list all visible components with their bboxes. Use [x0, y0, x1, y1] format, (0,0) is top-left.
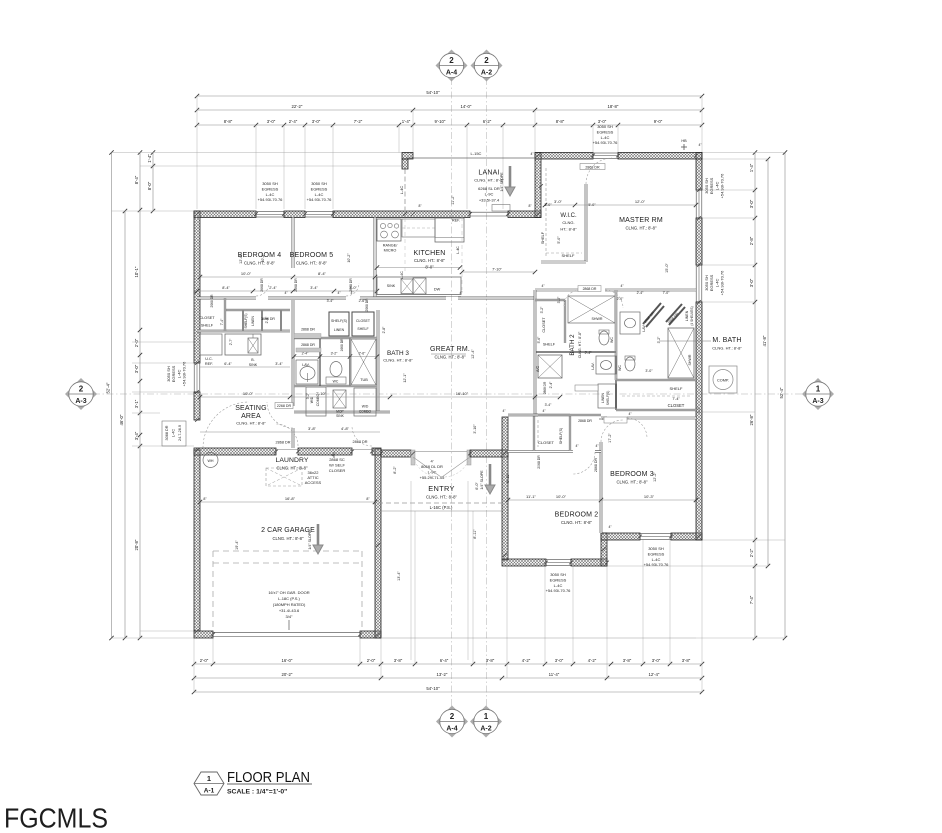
- svg-text:3'-10": 3'-10": [473, 424, 477, 434]
- garage overhead door header: [213, 631, 360, 633]
- slope arrow garage: [313, 524, 323, 554]
- svg-text:(180MPH RATED): (180MPH RATED): [273, 602, 306, 607]
- svg-text:SCALE : 1/4"=1'-0": SCALE : 1/4"=1'-0": [227, 789, 287, 796]
- svg-text:LANAI: LANAI: [478, 170, 499, 177]
- svg-text:3'-4": 3'-4": [310, 286, 318, 290]
- laundry door gap header: [276, 449, 298, 451]
- slope arrow entry porch: [485, 464, 495, 494]
- west wall segment: [194, 392, 200, 420]
- svg-text:10'-2": 10'-2": [347, 253, 351, 263]
- svg-text:2868 DR: 2868 DR: [301, 343, 315, 347]
- door label master 2868: [580, 164, 605, 170]
- right dimension line 41'-8: [767, 159, 769, 566]
- svg-text:3050 SH: 3050 SH: [550, 572, 566, 577]
- svg-text:L-4C: L-4C: [400, 271, 404, 279]
- svg-text:52'-4": 52'-4": [106, 382, 111, 393]
- svg-text:3'-0": 3'-0": [749, 199, 754, 208]
- svg-text:GREAT RM.: GREAT RM.: [430, 346, 470, 353]
- bottom dimension row segments: [194, 663, 702, 665]
- master closet walls: [616, 379, 696, 381]
- svg-text:2868 DR: 2868 DR: [543, 381, 547, 394]
- svg-text:SINK: SINK: [249, 363, 258, 367]
- svg-text:3'-0": 3'-0": [749, 278, 754, 287]
- svg-text:BEDROOM 3: BEDROOM 3: [610, 471, 654, 478]
- north wall of bedrooms and kitchen: [194, 211, 256, 218]
- closet band bottom wall: [197, 330, 290, 332]
- svg-text:2: 2: [79, 384, 84, 393]
- svg-text:2268 DR: 2268 DR: [277, 404, 292, 408]
- svg-text:2'-0": 2'-0": [134, 338, 139, 347]
- svg-text:4'-2": 4'-2": [522, 658, 531, 663]
- svg-text:54'-10": 54'-10": [426, 90, 440, 95]
- west exterior wall: [194, 211, 200, 363]
- garage south wall west jamb: [194, 631, 213, 638]
- svg-text:LINEN: LINEN: [251, 316, 255, 326]
- svg-text:BEDROOM 4: BEDROOM 4: [238, 252, 282, 259]
- svg-text:CLNG. HT.: 8'-8": CLNG. HT.: 8'-8": [561, 520, 592, 525]
- garage self-close door header: [352, 449, 372, 451]
- svg-text:CLNG. HT.: 8'-8": CLNG. HT.: 8'-8": [277, 466, 308, 471]
- svg-text:3'-0": 3'-0": [645, 369, 653, 373]
- washer dryer combo 2: [354, 388, 376, 416]
- bath3 toilet: [330, 362, 342, 377]
- entry double door swing: [413, 457, 441, 477]
- jog wall between bedroom2 and bedroom3: [601, 533, 607, 566]
- svg-text:8'-8": 8'-8": [556, 119, 565, 124]
- kitchen soffit dashed: [404, 218, 406, 272]
- svg-text:CLOSET: CLOSET: [668, 403, 685, 408]
- svg-text:8'-0": 8'-0": [147, 181, 152, 190]
- svg-text:SINK: SINK: [336, 414, 344, 418]
- svg-text:20'-2": 20'-2": [282, 672, 293, 677]
- svg-text:5'-6": 5'-6": [537, 336, 541, 344]
- svg-text:3'-0": 3'-0": [544, 203, 552, 207]
- great rm dim 7'-10: [462, 271, 535, 273]
- svg-text:1'-4": 1'-4": [749, 163, 754, 172]
- svg-text:8'-2": 8'-2": [393, 466, 397, 474]
- north wall segment to lanai: [333, 211, 470, 218]
- left dimension line 46'-0: [124, 211, 126, 638]
- svg-text:SHELF(S): SHELF(S): [606, 391, 610, 406]
- svg-text:7'-4": 7'-4": [749, 595, 754, 604]
- interior dim garage line: [200, 501, 375, 503]
- svg-text:CLNG. HT.: 8'-8": CLNG. HT.: 8'-8": [435, 355, 466, 360]
- svg-text:2868 DR: 2868 DR: [594, 458, 598, 473]
- svg-text:LAUNDRY: LAUNDRY: [275, 457, 308, 464]
- svg-text:2868 DR: 2868 DR: [583, 287, 597, 291]
- svg-text:10'-3": 10'-3": [644, 494, 655, 499]
- svg-text:19'-4": 19'-4": [235, 540, 239, 550]
- AC compressor pad: [709, 366, 737, 393]
- svg-text:10'-0": 10'-0": [556, 494, 567, 499]
- interior dim master line: [545, 204, 696, 206]
- svg-text:7'-4": 7'-4": [220, 318, 224, 325]
- svg-text:8'-0": 8'-0": [425, 265, 434, 270]
- svg-text:WH: WH: [208, 459, 214, 463]
- svg-text:REF.: REF.: [452, 219, 460, 223]
- svg-text:8'-4": 8'-4": [134, 175, 139, 184]
- bedroom3 south wall east: [671, 533, 702, 540]
- svg-text:2'-8": 2'-8": [382, 326, 386, 334]
- svg-text:2068 DR: 2068 DR: [537, 455, 541, 469]
- svg-text:+54.93/-70.76: +54.93/-70.76: [307, 197, 333, 202]
- svg-text:3050 SH: 3050 SH: [262, 181, 278, 186]
- WIC shelf dashed: [545, 168, 547, 256]
- svg-text:W/D: W/D: [362, 405, 369, 409]
- right dimension line 52'-4: [784, 153, 786, 639]
- door swing arcs: [256, 283, 269, 296]
- east wall segment: [696, 218, 702, 265]
- laundry room attic access: [266, 468, 302, 486]
- svg-text:L-4C: L-4C: [266, 192, 275, 197]
- svg-text:W.I.C.: W.I.C.: [560, 213, 577, 219]
- svg-text:6'-2": 6'-2": [483, 119, 492, 124]
- porch dashed overhang line: [378, 502, 505, 504]
- svg-text:2'-6": 2'-6": [359, 299, 367, 303]
- svg-text:SHELF: SHELF: [562, 253, 575, 258]
- AC closet: [538, 355, 562, 378]
- hall door headers: [294, 334, 321, 339]
- svg-text:EGRESS: EGRESS: [550, 577, 567, 582]
- svg-text:EGRESS: EGRESS: [262, 186, 279, 191]
- garage/house wall with laundry: [194, 448, 276, 455]
- mbath toilet: [625, 357, 635, 371]
- bath2 shower: [568, 296, 615, 323]
- svg-text:2668 DR: 2668 DR: [260, 278, 264, 292]
- master north wall east: [618, 153, 702, 160]
- svg-text:2068 DR: 2068 DR: [210, 294, 214, 308]
- svg-text:L-18C (P.S.): L-18C (P.S.): [278, 596, 300, 601]
- svg-text:WC: WC: [333, 380, 339, 384]
- svg-text:L-4C: L-4C: [172, 429, 176, 437]
- svg-text:CLNG. HT.: 8'-8": CLNG. HT.: 8'-8": [383, 358, 413, 363]
- svg-text:L-4C: L-4C: [315, 192, 324, 197]
- svg-text:54'-10": 54'-10": [426, 686, 440, 691]
- bath3 dim line: [294, 356, 377, 358]
- kitchen counter band: [377, 277, 461, 295]
- svg-text:SHWR: SHWR: [688, 354, 692, 365]
- svg-text:BEDROOM 5: BEDROOM 5: [290, 252, 334, 259]
- section line A-4 vertical: [451, 78, 453, 709]
- door label 2268 seating: [275, 403, 293, 409]
- bath2 lav: [596, 356, 616, 374]
- entry front wall east of door: [470, 450, 508, 457]
- window east wall lower 3050SH: [696, 265, 702, 302]
- svg-text:1: 1: [816, 384, 821, 393]
- svg-text:1/4" SLOPE: 1/4" SLOPE: [308, 530, 312, 550]
- svg-text:3'-4": 3'-4": [275, 362, 283, 366]
- svg-text:A-1: A-1: [204, 788, 215, 795]
- garage door dashed track lines: [212, 551, 214, 630]
- svg-text:L-4C: L-4C: [554, 583, 563, 588]
- lanai screen north edge: [407, 157, 535, 159]
- bath3 south wall: [294, 411, 390, 413]
- svg-text:52'-4": 52'-4": [779, 387, 784, 398]
- svg-text:3'-8": 3'-8": [682, 658, 691, 663]
- top extension lines: [196, 96, 198, 209]
- svg-text:CLOSET: CLOSET: [199, 316, 215, 320]
- front door label box west: [162, 421, 186, 446]
- garage south wall east jamb: [360, 631, 381, 638]
- svg-text:B.: B.: [251, 358, 254, 362]
- bath3 lav: [296, 360, 318, 384]
- svg-text:16'x7' OH GAR. DOOR: 16'x7' OH GAR. DOOR: [268, 590, 309, 595]
- window bedroom3 3050SH: [640, 534, 671, 540]
- svg-text:+54.93/-70.76: +54.93/-70.76: [546, 588, 572, 593]
- svg-text:3'-4": 3'-4": [545, 403, 553, 407]
- garage east wall: [375, 449, 381, 638]
- wall corner tick marks: [195, 212, 199, 216]
- interior dim bedroom2/3 line: [508, 499, 696, 501]
- svg-text:16'-10": 16'-10": [456, 391, 469, 396]
- west wall below front door: [194, 450, 200, 631]
- left dimension line small top: [152, 153, 154, 212]
- svg-text:7'-0": 7'-0": [663, 291, 671, 295]
- svg-text:SHWR: SHWR: [592, 317, 603, 321]
- svg-text:MOP: MOP: [336, 410, 344, 414]
- svg-text:2: 2: [449, 56, 454, 65]
- svg-text:3'-2": 3'-2": [331, 352, 339, 356]
- svg-text:(4 SHELVES): (4 SHELVES): [690, 306, 694, 325]
- water heater WH: [203, 453, 218, 468]
- svg-text:SHELF: SHELF: [543, 343, 556, 347]
- svg-text:3'-0": 3'-0": [267, 119, 276, 124]
- front porch walkway edge: [381, 637, 696, 639]
- interior dim bedrooms: [200, 276, 375, 278]
- interior dim great room line: [200, 396, 560, 398]
- bedroom2 south wall: [502, 559, 546, 566]
- svg-text:HB: HB: [681, 139, 687, 143]
- svg-text:SINK: SINK: [387, 284, 396, 288]
- svg-text:3'-8": 3'-8": [394, 658, 403, 663]
- section line A-3 horizontal: [93, 393, 806, 395]
- svg-text:CLOSET: CLOSET: [542, 317, 546, 333]
- porch slab edge: [381, 510, 502, 512]
- window bedroom5 3050SH: [305, 212, 333, 218]
- svg-text:10'-2": 10'-2": [261, 253, 265, 263]
- svg-text:CLOSET: CLOSET: [538, 440, 555, 445]
- section marker 1/A-2 bottom: [470, 706, 502, 738]
- WIC east wall: [585, 184, 588, 262]
- svg-text:L-4C: L-4C: [399, 186, 404, 195]
- svg-text:CLNG.: CLNG.: [562, 220, 574, 225]
- svg-text:W/ SELF: W/ SELF: [329, 463, 346, 468]
- svg-text:1'-4": 1'-4": [402, 119, 411, 124]
- svg-text:LINEN: LINEN: [601, 392, 605, 403]
- svg-text:CLNG. HT.: 8'-8": CLNG. HT.: 8'-8": [626, 226, 657, 231]
- bath3 fixtures top wall: [294, 337, 377, 339]
- range and microwave: [377, 219, 401, 241]
- svg-text:2'-2": 2'-2": [749, 548, 754, 557]
- svg-text:L-9C: L-9C: [485, 192, 494, 197]
- svg-text:2'-4": 2'-4": [637, 291, 645, 295]
- window master 3050SH egress: [593, 153, 618, 159]
- svg-text:3'-0": 3'-0": [555, 658, 564, 663]
- svg-text:2668 DR: 2668 DR: [294, 278, 298, 292]
- svg-text:+33.5/-37.4: +33.5/-37.4: [479, 198, 500, 203]
- kitchen 8-0 dim line: [377, 267, 460, 269]
- svg-text:1/4" SLOPE: 1/4" SLOPE: [480, 470, 484, 490]
- svg-text:2868 DR: 2868 DR: [276, 441, 291, 445]
- svg-text:L-16C (P.S.): L-16C (P.S.): [430, 505, 453, 510]
- svg-text:COMP.: COMP.: [717, 379, 729, 383]
- north wall segment: [284, 211, 305, 218]
- svg-text:1'-4": 1'-4": [147, 154, 152, 163]
- svg-text:AREA: AREA: [241, 413, 261, 420]
- svg-text:12'-0": 12'-0": [635, 199, 646, 204]
- svg-text:2'-4": 2'-4": [265, 316, 269, 324]
- svg-text:8'-4": 8'-4": [318, 271, 327, 276]
- bedroom3 upper closet: [535, 299, 565, 301]
- svg-text:A-3: A-3: [75, 398, 86, 405]
- svg-text:8'-4": 8'-4": [222, 286, 230, 290]
- svg-text:COMBO: COMBO: [359, 410, 372, 414]
- svg-text:2'-0": 2'-0": [200, 658, 209, 663]
- svg-text:2868 DR: 2868 DR: [301, 328, 315, 332]
- svg-text:11'-2": 11'-2": [451, 195, 455, 205]
- svg-text:2868 DR: 2868 DR: [578, 419, 592, 423]
- svg-text:3'-4": 3'-4": [134, 431, 139, 440]
- svg-text:CLOSET: CLOSET: [356, 319, 371, 323]
- master closet shelf dashed: [622, 395, 692, 397]
- svg-text:WC: WC: [610, 337, 614, 343]
- svg-text:2 CAR GARAGE: 2 CAR GARAGE: [261, 527, 315, 534]
- svg-text:BATH 3: BATH 3: [387, 350, 409, 357]
- bedroom3 west wall: [600, 418, 603, 420]
- window east wall upper 3050SH: [696, 190, 702, 218]
- section marker 2/A-4 bottom: [436, 706, 468, 738]
- svg-text:12'-2": 12'-2": [653, 472, 657, 482]
- master suite north wall: [535, 153, 593, 160]
- right dimension line inner segments: [754, 153, 756, 639]
- north wall under lanai east: [508, 211, 541, 218]
- svg-text:3050 SH: 3050 SH: [597, 124, 613, 129]
- svg-text:12'-1": 12'-1": [403, 373, 407, 383]
- svg-text:WC: WC: [618, 365, 622, 371]
- svg-text:2'-4": 2'-4": [549, 381, 553, 389]
- lanai east wall: [535, 153, 541, 218]
- svg-text:8'-11": 8'-11": [506, 473, 510, 483]
- svg-text:13'-2": 13'-2": [437, 672, 448, 677]
- svg-text:2'-7": 2'-7": [229, 338, 233, 345]
- svg-text:MASTER RM: MASTER RM: [619, 217, 663, 224]
- room label m bath with leader: [660, 340, 711, 342]
- svg-text:2: 2: [450, 712, 455, 721]
- svg-text:1/4" SLOPE: 1/4" SLOPE: [500, 172, 504, 192]
- svg-text:RANGE/: RANGE/: [383, 244, 399, 248]
- closet band dim line: [197, 290, 377, 292]
- svg-text:SHELF: SHELF: [357, 327, 368, 331]
- kitchen sink basin: [401, 279, 413, 294]
- svg-text:SHELF(S): SHELF(S): [244, 313, 248, 328]
- svg-text:+54.93/-70.76: +54.93/-70.76: [182, 361, 187, 387]
- wet bar counter: [225, 334, 261, 355]
- master south wall / bath band top: [535, 289, 580, 292]
- svg-text:BEDROOM 2: BEDROOM 2: [555, 512, 599, 519]
- hallway north wall: [197, 297, 256, 300]
- WIC south wall: [541, 261, 586, 264]
- svg-text:7'-2": 7'-2": [354, 119, 363, 124]
- svg-text:3'-2": 3'-2": [557, 296, 561, 304]
- closet dividers: [224, 298, 226, 331]
- svg-text:22'-2": 22'-2": [292, 104, 303, 109]
- svg-text:41'-8": 41'-8": [762, 335, 767, 346]
- mbath lav: [620, 312, 640, 334]
- svg-text:CLNG. HT.: 8'-8": CLNG. HT.: 8'-8": [426, 495, 457, 500]
- svg-text:A-2: A-2: [480, 726, 491, 733]
- svg-text:3'-0": 3'-0": [697, 406, 701, 414]
- svg-text:2: 2: [484, 56, 489, 65]
- svg-text:3'-0": 3'-0": [312, 119, 321, 124]
- bottom dimension row overall 54'-10: [194, 691, 702, 693]
- kitchen upper counter dashed: [402, 219, 435, 237]
- svg-text:14'-0": 14'-0": [461, 104, 472, 109]
- svg-text:SHELF(S): SHELF(S): [559, 428, 563, 444]
- svg-text:3050 SH: 3050 SH: [311, 181, 327, 186]
- svg-text:3'-8": 3'-8": [308, 426, 317, 431]
- svg-text:2668 DR: 2668 DR: [349, 278, 353, 292]
- bath3 lav/wc partition: [319, 338, 321, 386]
- refrigerator: [435, 218, 464, 242]
- hall south wall by bedroom3: [535, 414, 601, 416]
- closet band top wall right: [226, 309, 290, 311]
- svg-text:3/4": 3/4": [286, 614, 294, 619]
- svg-text:L-4C: L-4C: [652, 557, 661, 562]
- svg-text:CLNG. HT.: 8'-8": CLNG. HT.: 8'-8": [244, 261, 275, 266]
- svg-text:A-4: A-4: [446, 70, 457, 77]
- svg-text:+54.93/-70.76: +54.93/-70.76: [644, 562, 670, 567]
- svg-text:3'-8": 3'-8": [486, 658, 495, 663]
- svg-text:3068 DR: 3068 DR: [165, 425, 169, 440]
- svg-text:LAV.: LAV.: [591, 362, 595, 369]
- svg-text:2'-4": 2'-4": [269, 286, 277, 290]
- svg-text:+54.93/-70.76: +54.93/-70.76: [720, 173, 725, 199]
- svg-text:SEATING: SEATING: [235, 405, 267, 412]
- svg-text:9'-10": 9'-10": [435, 119, 446, 124]
- svg-text:3'-0": 3'-0": [134, 364, 139, 373]
- svg-text:7'-4": 7'-4": [672, 397, 680, 401]
- svg-text:26'-8": 26'-8": [749, 414, 754, 425]
- bath2 mbath divider wall: [615, 290, 617, 380]
- svg-text:LAV.: LAV.: [642, 324, 646, 331]
- svg-text:CLNG. HT.: 8'-8": CLNG. HT.: 8'-8": [617, 480, 648, 485]
- svg-text:FGCMLS: FGCMLS: [4, 803, 108, 833]
- svg-text:9'-0": 9'-0": [654, 119, 663, 124]
- svg-text:2'-0": 2'-0": [617, 297, 625, 301]
- svg-text:7'-10": 7'-10": [492, 268, 502, 272]
- svg-text:8'-8": 8'-8": [224, 119, 233, 124]
- svg-text:L-15C: L-15C: [471, 151, 482, 156]
- section marker 1/A-3 right: [802, 378, 834, 410]
- svg-text:17'-2": 17'-2": [608, 433, 612, 443]
- kitchen pantry crosshatch: [413, 278, 426, 294]
- svg-text:KITCHEN: KITCHEN: [413, 250, 445, 257]
- svg-text:CLNG. HT.: 8'-8": CLNG. HT.: 8'-8": [578, 331, 582, 358]
- mbath shower: [668, 328, 694, 378]
- svg-text:12'-4": 12'-4": [649, 672, 660, 677]
- top dimension row 3 segments: [197, 124, 702, 126]
- svg-text:3050 SH: 3050 SH: [648, 546, 664, 551]
- bottom extension lines: [193, 638, 195, 692]
- bedroom3 south wall: [601, 533, 640, 540]
- linen closet by bath3: [329, 312, 349, 336]
- svg-text:24.7-26.9: 24.7-26.9: [178, 425, 182, 441]
- sliding door 6268 SL to lanai: [470, 211, 508, 213]
- bedroom3 north wall: [601, 417, 607, 420]
- svg-text:11'-4": 11'-4": [549, 672, 560, 677]
- bedroom4/5 divider wall: [292, 218, 295, 269]
- svg-text:CLOSER: CLOSER: [329, 468, 346, 473]
